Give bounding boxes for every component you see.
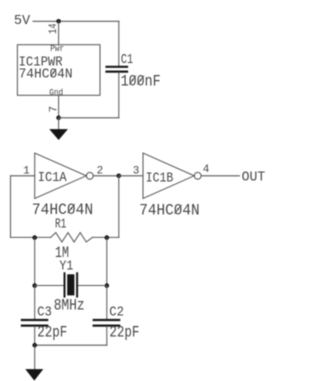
node junction at 5V pin14 tap — [56, 19, 61, 24]
svg-text:100nF: 100nF — [121, 72, 161, 90]
node junction R1 row right — [105, 235, 110, 240]
svg-text:3: 3 — [133, 165, 140, 177]
pin number 2 — [97, 166, 104, 178]
wire right rail down from IC1A output node — [118, 176, 120, 238]
node junction IC1A out / IC1B in — [117, 174, 122, 179]
crystal Y1 8MHz — [54, 259, 85, 315]
svg-text:C2: C2 — [109, 305, 124, 321]
svg-text:4: 4 — [203, 164, 210, 176]
node junction R1 row left — [32, 235, 37, 240]
svg-text:2: 2 — [97, 166, 104, 178]
inverter IC1B — [143, 153, 201, 199]
svg-text:C3: C3 — [37, 305, 52, 321]
wire C2 top lead — [106, 286, 108, 319]
wire C3 top lead — [34, 286, 36, 319]
wire C1 bottom lead — [118, 73, 120, 118]
value label 74HC04N under IC1A — [32, 201, 93, 219]
wire IC1B output — [201, 175, 239, 177]
wire C3 bottom lead — [34, 327, 36, 346]
pin number 4 — [203, 164, 210, 176]
wire R1 row left segment — [11, 236, 51, 238]
svg-text:Y1: Y1 — [59, 259, 73, 275]
capacitor C1 100nF — [107, 52, 161, 90]
svg-text:5V: 5V — [14, 13, 31, 29]
svg-text:1: 1 — [23, 166, 30, 178]
ground symbol bottom — [26, 345, 43, 380]
svg-text:C1: C1 — [121, 52, 133, 68]
wire IC1B input — [119, 175, 143, 177]
pin number 3 — [133, 165, 140, 177]
ground symbol top — [50, 118, 67, 140]
capacitor C2 22pF — [94, 305, 140, 342]
svg-text:IC1B: IC1B — [146, 171, 174, 187]
svg-text:22pF: 22pF — [109, 323, 139, 341]
svg-text:R1: R1 — [55, 217, 66, 233]
node junction bottom ground — [32, 343, 37, 348]
wire drop left to crystal row — [34, 237, 36, 285]
wire pin 14 stub down to IC box — [58, 21, 60, 44]
inverter IC1A — [35, 153, 94, 199]
resistor R1 — [51, 217, 93, 262]
wire crystal left lead — [35, 285, 64, 287]
svg-text:8MHz: 8MHz — [54, 297, 85, 315]
pin number 7 — [48, 106, 60, 113]
wire ground net to C1 bottom — [59, 117, 119, 119]
capacitor C3 22pF — [22, 305, 67, 342]
wire bottom ground row — [35, 344, 107, 346]
wire pin 7 stub down from IC box — [58, 95, 60, 118]
svg-text:14: 14 — [48, 23, 60, 34]
wire 5V rail horizontal — [33, 20, 119, 22]
node junction pin7 / C1 ground — [56, 116, 61, 121]
svg-text:Pwr: Pwr — [50, 43, 64, 54]
wire drop right to crystal row — [106, 237, 108, 285]
supply 5V label — [14, 13, 31, 29]
wire left rail down from IC1A input — [10, 176, 12, 238]
svg-text:74HC04N: 74HC04N — [19, 67, 73, 83]
svg-text:74HC04N: 74HC04N — [139, 202, 199, 220]
wire C2 bottom lead — [106, 327, 108, 346]
value label 74HC04N under IC1B — [139, 202, 199, 220]
pin number 14 — [48, 23, 60, 34]
wire C1 top lead from 5V rail — [118, 21, 120, 65]
svg-text:OUT: OUT — [242, 170, 266, 186]
pin number 1 — [23, 166, 30, 178]
IC1PWR power box 74HC04N — [17, 43, 100, 98]
wire crystal right lead — [78, 285, 107, 287]
node junction crystal row left — [32, 283, 37, 288]
node junction crystal row right — [105, 283, 110, 288]
wire R1 row right segment — [92, 236, 118, 238]
svg-text:IC1A: IC1A — [38, 170, 68, 186]
wire IC1A input from left rail — [11, 175, 35, 177]
wire IC1A output to node — [93, 175, 119, 177]
svg-text:22pF: 22pF — [37, 323, 67, 341]
node OUT label — [242, 170, 266, 186]
svg-text:Gnd: Gnd — [49, 87, 63, 98]
